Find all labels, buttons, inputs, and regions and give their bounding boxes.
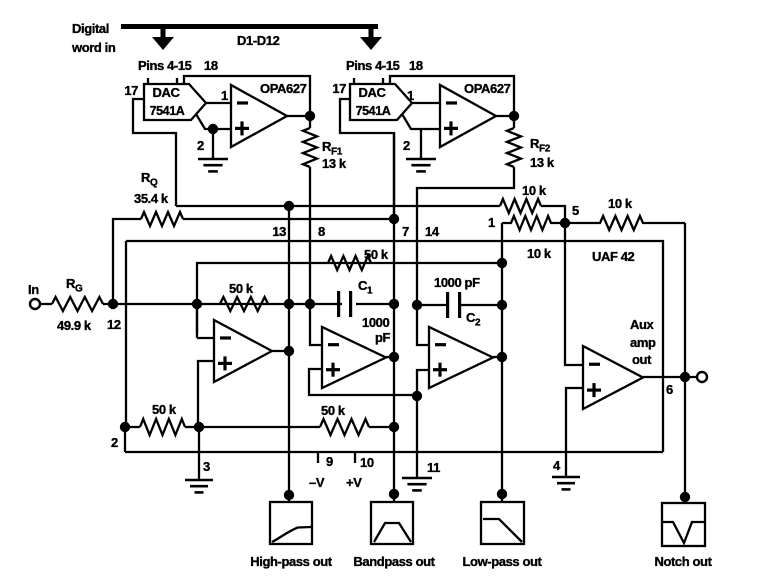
label "Digital word in" bbox=[71, 21, 116, 55]
op-amp U4 OPA627 bbox=[440, 85, 496, 147]
wire: node5 column to aux amp inverting input bbox=[565, 223, 583, 365]
op-amp A2 bbox=[322, 327, 386, 388]
capacitor C1 1000pF bbox=[337, 291, 352, 317]
resistor 50k (node2 to A1+) bbox=[125, 426, 140, 428]
svg-text:1000 pF: 1000 pF bbox=[434, 275, 480, 290]
node: C2 right at LP column bbox=[497, 300, 507, 310]
svg-text:10 k: 10 k bbox=[608, 196, 633, 211]
svg-text:8: 8 bbox=[318, 224, 325, 239]
low-pass response box bbox=[481, 502, 524, 544]
resistor 10k (LP pin1 to node 5) bbox=[502, 216, 565, 230]
svg-text:5: 5 bbox=[572, 203, 579, 218]
wire: node 12 up to RQ bbox=[113, 219, 141, 304]
svg-text:DAC: DAC bbox=[153, 85, 181, 100]
resistor 10k (HP to node 5) bbox=[500, 199, 541, 213]
notch response box bbox=[662, 503, 705, 546]
node: HP output tap bbox=[284, 490, 294, 500]
svg-text:35.4 k: 35.4 k bbox=[134, 191, 169, 206]
node: notch output junction bbox=[680, 372, 690, 382]
node: RQ joins bandpass column bbox=[389, 214, 399, 224]
svg-text:13: 13 bbox=[272, 224, 286, 239]
svg-text:1: 1 bbox=[221, 88, 228, 103]
node: A1 non-inverting / pin 3 bbox=[194, 422, 204, 432]
svg-text:Digital: Digital bbox=[72, 21, 109, 36]
wire: pin8 column to A2 inverting input bbox=[310, 304, 322, 345]
wire: A1 inverting input bbox=[196, 304, 198, 338]
svg-text:High-pass out: High-pass out bbox=[250, 554, 333, 569]
svg-text:Aux: Aux bbox=[630, 317, 655, 332]
wire: C2 line bbox=[417, 304, 446, 306]
bus arrow into DAC U2 bbox=[360, 28, 382, 50]
pin 10 supply stub bbox=[354, 452, 356, 463]
wire: U4 output bbox=[496, 115, 514, 117]
svg-text:3: 3 bbox=[203, 459, 210, 474]
wire: DAC U1 out1 to op-amp inverting input bbox=[206, 102, 231, 104]
svg-text:Bandpass out: Bandpass out bbox=[353, 554, 435, 569]
svg-text:2: 2 bbox=[111, 435, 118, 450]
svg-text:4: 4 bbox=[553, 458, 561, 473]
pin 9 supply stub bbox=[317, 452, 319, 463]
ground (pin 3) bbox=[185, 479, 213, 482]
node: A1 inverting input bbox=[192, 299, 202, 309]
DAC U1 7541A body bbox=[144, 78, 206, 120]
svg-text:2: 2 bbox=[403, 138, 410, 153]
svg-text:10 k: 10 k bbox=[522, 183, 547, 198]
ground (pin 11) bbox=[402, 477, 432, 480]
resistor RF2 13k bbox=[507, 128, 521, 167]
svg-text:50 k: 50 k bbox=[152, 402, 177, 417]
DAC U2 7541A body bbox=[350, 78, 412, 120]
node: notch output tap bbox=[680, 492, 690, 502]
node: 50k at BP column bbox=[389, 422, 399, 432]
wire: RF1 to UAF42 pin 8 / A2 input bbox=[309, 167, 311, 304]
wire: HP out line to RQ/10k (pin 13 feedback rail) bbox=[176, 205, 500, 207]
resistor 10k (node 5 to notch column) bbox=[565, 216, 685, 230]
wire: bottom ground rail bbox=[125, 451, 663, 453]
wire: notch column bbox=[684, 223, 686, 499]
wire: aux output bbox=[643, 376, 697, 378]
wire: DAC U2 out1 to op-amp inverting input bbox=[412, 102, 440, 104]
wire: ground reference line (node 2 rail top) bbox=[126, 241, 663, 452]
svg-text:DAC: DAC bbox=[359, 85, 387, 100]
wire: junction to ground bbox=[212, 129, 214, 158]
resistor 50k (A1 feedback) on summing line bbox=[220, 297, 268, 311]
svg-text:50 k: 50 k bbox=[364, 247, 389, 262]
digital bus D1-D12 (thick line) bbox=[121, 24, 378, 29]
svg-text:50 k: 50 k bbox=[229, 281, 254, 296]
node: 50k joins LP column bbox=[497, 258, 507, 268]
wire: node2 column bbox=[125, 241, 127, 427]
svg-text:17: 17 bbox=[332, 81, 346, 96]
bus arrow into DAC U1 bbox=[152, 28, 174, 50]
node 5 bbox=[560, 218, 570, 228]
wire: A1+ line to second 50k bbox=[199, 426, 320, 428]
svg-text:pF: pF bbox=[375, 330, 391, 345]
wire: node 2 to bottom rail bbox=[124, 427, 126, 452]
svg-text:13 k: 13 k bbox=[322, 156, 347, 171]
svg-text:UAF 42: UAF 42 bbox=[592, 249, 635, 264]
svg-text:7541A: 7541A bbox=[150, 104, 185, 118]
resistor 50k (A1+ to BP) bbox=[320, 419, 369, 435]
svg-text:6: 6 bbox=[666, 382, 673, 397]
wire: aux non-inverting to pin 4 ground bbox=[566, 388, 583, 477]
svg-text:13 k: 13 k bbox=[530, 155, 555, 170]
svg-text:50 k: 50 k bbox=[321, 403, 346, 418]
node: A1 output bbox=[284, 346, 294, 356]
wire: DAC U1 pin 17 to HP feedback line bbox=[133, 99, 176, 206]
svg-text:word in: word in bbox=[71, 40, 116, 55]
node: C2 left at pin14 column bbox=[412, 300, 422, 310]
ground (DAC U2 common) bbox=[406, 158, 436, 161]
high-pass response box bbox=[270, 502, 312, 544]
input terminal bbox=[30, 299, 40, 309]
node: LP output tap bbox=[497, 489, 507, 499]
node: U3 output bbox=[305, 111, 315, 121]
node: C1 right at BP column bbox=[389, 299, 399, 309]
wire: pin 3 ground stem bbox=[198, 427, 200, 479]
op-amp U3 OPA627 bbox=[231, 85, 287, 147]
ground (pin 4) bbox=[552, 476, 580, 479]
wire: pin 11 ground column bbox=[416, 396, 418, 477]
wire: A3 output bbox=[493, 356, 502, 358]
svg-text:Pins 4-15: Pins 4-15 bbox=[346, 58, 400, 73]
wire: DAC U2 pin 18 to OPA627 U4 output bbox=[390, 76, 514, 112]
svg-text:7541A: 7541A bbox=[356, 104, 391, 118]
wire: bandpass column (pin 7) bbox=[393, 133, 395, 502]
svg-text:D1-D12: D1-D12 bbox=[237, 33, 280, 48]
op-amp A4 aux bbox=[583, 346, 643, 409]
node: U1 out2 ground junction bbox=[208, 124, 218, 134]
wire: LP column (pin 1) bbox=[501, 223, 503, 502]
svg-text:11: 11 bbox=[427, 460, 440, 475]
svg-text:In: In bbox=[28, 282, 39, 297]
svg-text:Pins 4-15: Pins 4-15 bbox=[138, 58, 192, 73]
wire: C1 line to A2 output column bbox=[356, 303, 394, 305]
wire: HP column (pin 13) bbox=[288, 206, 290, 502]
resistor RG 49.9k bbox=[40, 303, 52, 305]
resistor RQ 35.4k bbox=[141, 212, 183, 226]
svg-text:2: 2 bbox=[197, 138, 204, 153]
svg-text:–V: –V bbox=[309, 475, 325, 490]
svg-text:Low-pass out: Low-pass out bbox=[463, 554, 543, 569]
node: HP column joins feedback rail bbox=[284, 201, 294, 211]
wire: A1 non-inverting input to node 2 rail bbox=[198, 361, 214, 427]
svg-text:out: out bbox=[632, 352, 652, 367]
svg-text:1000: 1000 bbox=[362, 315, 389, 330]
node: A2 output (BP) bbox=[389, 352, 399, 362]
ground (DAC U1 common) bbox=[198, 158, 228, 161]
wire: main summing line bbox=[103, 303, 342, 305]
svg-text:12: 12 bbox=[107, 317, 121, 332]
wire: A3 non-inverting to ground column bbox=[417, 370, 429, 396]
svg-text:14: 14 bbox=[425, 224, 440, 239]
node: U4 output bbox=[509, 111, 519, 121]
svg-text:7: 7 bbox=[402, 224, 409, 239]
label Aux amp out bbox=[630, 317, 656, 367]
wire: 10k to node 5 bbox=[541, 206, 565, 223]
bandpass response box bbox=[371, 502, 413, 544]
wire: pin14 column to A3 inverting input bbox=[417, 305, 429, 345]
wire: RF2 to UAF42 pin 14 / A3 input bbox=[417, 167, 514, 305]
svg-text:1: 1 bbox=[488, 215, 495, 230]
wire: DAC U1 pin 18 to OPA627 U3 output bbox=[184, 76, 310, 112]
svg-text:49.9 k: 49.9 k bbox=[57, 318, 92, 333]
node 2 bbox=[120, 422, 130, 432]
svg-text:Notch out: Notch out bbox=[654, 554, 712, 569]
output terminal (notch) bbox=[697, 372, 707, 382]
svg-text:9: 9 bbox=[326, 454, 333, 469]
svg-text:10: 10 bbox=[360, 455, 374, 470]
svg-text:18: 18 bbox=[204, 58, 218, 73]
node: pin8 column on summing line bbox=[305, 299, 315, 309]
node: BP output tap bbox=[389, 489, 399, 499]
svg-text:OPA627: OPA627 bbox=[464, 81, 511, 96]
wire: RQ to bandpass column bbox=[183, 218, 394, 220]
svg-text:OPA627: OPA627 bbox=[260, 81, 307, 96]
wire: DAC U1 out2 to op-amp non-inverting input bbox=[196, 114, 231, 129]
wire: 50k to BP column bbox=[369, 426, 394, 428]
wire: A2 non-inverting to ground line bbox=[309, 369, 417, 395]
wire: U2 junction to ground bbox=[420, 129, 422, 158]
svg-text:17: 17 bbox=[124, 83, 138, 98]
svg-text:+V: +V bbox=[346, 475, 362, 490]
wire: DAC U2 pin 17 to bandpass line bbox=[340, 99, 394, 219]
resistor RF1 13k bbox=[303, 128, 317, 167]
wire: A1 inverting node riser bbox=[197, 263, 502, 333]
wire: U3 output bbox=[287, 115, 310, 117]
svg-text:10 k: 10 k bbox=[527, 246, 552, 261]
op-amp A1 bbox=[214, 320, 272, 382]
svg-text:1: 1 bbox=[407, 88, 414, 103]
node: HP column on summing line bbox=[284, 299, 294, 309]
node: A2/A3 non-inverting ground junction bbox=[412, 391, 422, 401]
svg-text:amp: amp bbox=[630, 335, 656, 350]
svg-text:18: 18 bbox=[409, 58, 423, 73]
wire: A1 output to HP column bbox=[272, 350, 289, 352]
capacitor C2 1000pF bbox=[446, 292, 461, 318]
wire: A2 output bbox=[386, 356, 394, 358]
node: A3 output (LP) bbox=[497, 352, 507, 362]
op-amp A3 bbox=[429, 327, 493, 388]
wire: DAC U2 out2 to op-amp non-inverting input bbox=[402, 114, 440, 129]
resistor 50k (LP to A1 inverting) bbox=[328, 256, 371, 270]
